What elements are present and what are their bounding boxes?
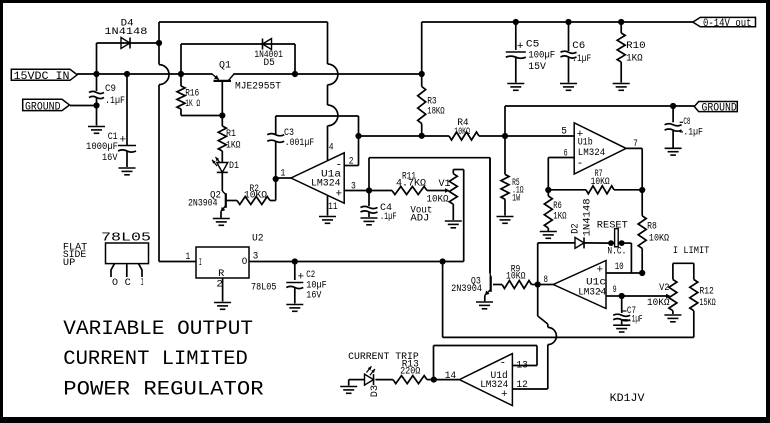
svg-text:2N3904: 2N3904 xyxy=(451,284,482,295)
svg-text:1K Ω: 1K Ω xyxy=(185,99,200,110)
svg-text:78L05: 78L05 xyxy=(101,231,151,244)
svg-text:8: 8 xyxy=(544,275,549,286)
svg-text:18KΩ: 18KΩ xyxy=(427,107,445,118)
svg-text:1KΩ: 1KΩ xyxy=(626,54,643,65)
svg-text:R12: R12 xyxy=(700,286,714,297)
svg-text:ADJ: ADJ xyxy=(410,213,429,224)
svg-text:.1µF: .1µF xyxy=(683,127,703,138)
svg-text:15KΩ: 15KΩ xyxy=(700,298,716,309)
svg-text:220Ω: 220Ω xyxy=(400,367,420,378)
svg-text:+: + xyxy=(577,129,584,141)
svg-text:0-14V_out: 0-14V_out xyxy=(703,18,752,30)
svg-text:1: 1 xyxy=(281,169,286,180)
svg-text:+: + xyxy=(120,134,127,146)
svg-text:C9: C9 xyxy=(105,84,116,95)
svg-text:1000µF: 1000µF xyxy=(86,142,118,153)
svg-text:.001µF: .001µF xyxy=(285,138,315,149)
svg-text:10KΩ: 10KΩ xyxy=(649,234,669,245)
svg-text:1N4148: 1N4148 xyxy=(104,27,147,38)
svg-text:15V: 15V xyxy=(528,62,546,73)
svg-text:R8: R8 xyxy=(647,222,657,233)
svg-text:R1: R1 xyxy=(226,129,236,140)
svg-text:V2: V2 xyxy=(659,283,669,294)
svg-text:U2: U2 xyxy=(252,234,264,245)
svg-text:O: O xyxy=(242,257,248,268)
svg-text:+: + xyxy=(597,264,604,276)
svg-text:10KΩ: 10KΩ xyxy=(244,190,267,201)
svg-text:6: 6 xyxy=(564,148,568,159)
svg-text:I LIMIT: I LIMIT xyxy=(673,246,710,257)
svg-text:VARIABLE OUTPUT: VARIABLE OUTPUT xyxy=(63,318,253,341)
svg-text:14: 14 xyxy=(445,371,457,382)
svg-text:+: + xyxy=(517,41,524,53)
svg-text:.1µF: .1µF xyxy=(628,314,642,325)
svg-text:.1µF: .1µF xyxy=(105,96,125,107)
svg-text:D2: D2 xyxy=(571,223,582,233)
svg-text:D1: D1 xyxy=(229,161,239,172)
svg-text:D5: D5 xyxy=(264,58,275,69)
svg-text:O: O xyxy=(112,278,118,289)
svg-text:7: 7 xyxy=(633,139,638,150)
svg-text:V1: V1 xyxy=(439,179,451,190)
svg-text:N.C.: N.C. xyxy=(607,246,626,257)
svg-text:4: 4 xyxy=(329,143,334,154)
svg-text:16V: 16V xyxy=(102,153,118,164)
svg-text:3: 3 xyxy=(351,181,356,192)
svg-text:3: 3 xyxy=(253,252,259,263)
svg-text:10KΩ: 10KΩ xyxy=(427,194,449,205)
svg-text:-: - xyxy=(500,357,507,369)
svg-text:R10: R10 xyxy=(626,41,646,52)
svg-text:-: - xyxy=(597,286,604,298)
svg-text:D3: D3 xyxy=(370,385,381,397)
svg-text:1KΩ: 1KΩ xyxy=(226,140,241,151)
svg-text:I: I xyxy=(199,258,202,269)
svg-text:12: 12 xyxy=(516,380,528,391)
svg-text:16V: 16V xyxy=(306,291,321,302)
svg-text:R: R xyxy=(218,269,224,280)
svg-text:4.7KΩ: 4.7KΩ xyxy=(396,178,426,189)
svg-text:RESET: RESET xyxy=(597,221,628,232)
svg-text:2: 2 xyxy=(216,279,223,290)
svg-text:2N3904: 2N3904 xyxy=(188,198,218,209)
svg-text:GROUND: GROUND xyxy=(25,101,61,113)
svg-text:15VDC IN: 15VDC IN xyxy=(14,71,70,83)
svg-text:.1µF: .1µF xyxy=(572,54,591,65)
svg-text:+: + xyxy=(336,189,343,201)
svg-text:R6: R6 xyxy=(553,201,562,212)
svg-text:+: + xyxy=(501,389,508,401)
svg-text:C5: C5 xyxy=(526,39,540,50)
svg-text:10: 10 xyxy=(615,262,624,273)
svg-text:KD1JV: KD1JV xyxy=(610,393,645,405)
svg-text:2: 2 xyxy=(349,156,354,167)
svg-text:MJE2955T: MJE2955T xyxy=(235,81,281,92)
svg-text:10KΩ: 10KΩ xyxy=(647,298,670,309)
svg-text:1W: 1W xyxy=(512,194,520,205)
svg-text:CURRENT LIMITED: CURRENT LIMITED xyxy=(63,348,248,371)
svg-text:10KΩ: 10KΩ xyxy=(506,271,526,282)
svg-text:10KΩ: 10KΩ xyxy=(454,127,470,138)
svg-text:100µF: 100µF xyxy=(528,50,555,61)
svg-text:5: 5 xyxy=(561,127,567,138)
svg-text:13: 13 xyxy=(516,360,528,371)
svg-text:Q1: Q1 xyxy=(219,60,231,71)
svg-text:GROUND: GROUND xyxy=(702,103,738,115)
svg-text:POWER REGULATOR: POWER REGULATOR xyxy=(63,379,263,402)
svg-text:C2: C2 xyxy=(306,270,315,281)
svg-text:11: 11 xyxy=(328,202,338,213)
svg-text:UP: UP xyxy=(63,258,75,269)
svg-text:9: 9 xyxy=(613,285,617,296)
svg-text:I: I xyxy=(141,278,144,289)
svg-text:1N4148: 1N4148 xyxy=(583,198,594,236)
svg-text:C: C xyxy=(125,278,131,289)
svg-text:-: - xyxy=(336,160,343,172)
svg-text:R16: R16 xyxy=(185,88,199,99)
svg-text:1: 1 xyxy=(186,252,191,263)
svg-text:10KΩ: 10KΩ xyxy=(591,177,610,188)
svg-text:.1µF: .1µF xyxy=(380,212,397,223)
svg-text:-: - xyxy=(577,158,584,170)
svg-text:1KΩ: 1KΩ xyxy=(553,212,566,223)
svg-text:C6: C6 xyxy=(572,41,585,52)
svg-text:+: + xyxy=(298,271,305,283)
svg-text:78L05: 78L05 xyxy=(251,282,277,293)
